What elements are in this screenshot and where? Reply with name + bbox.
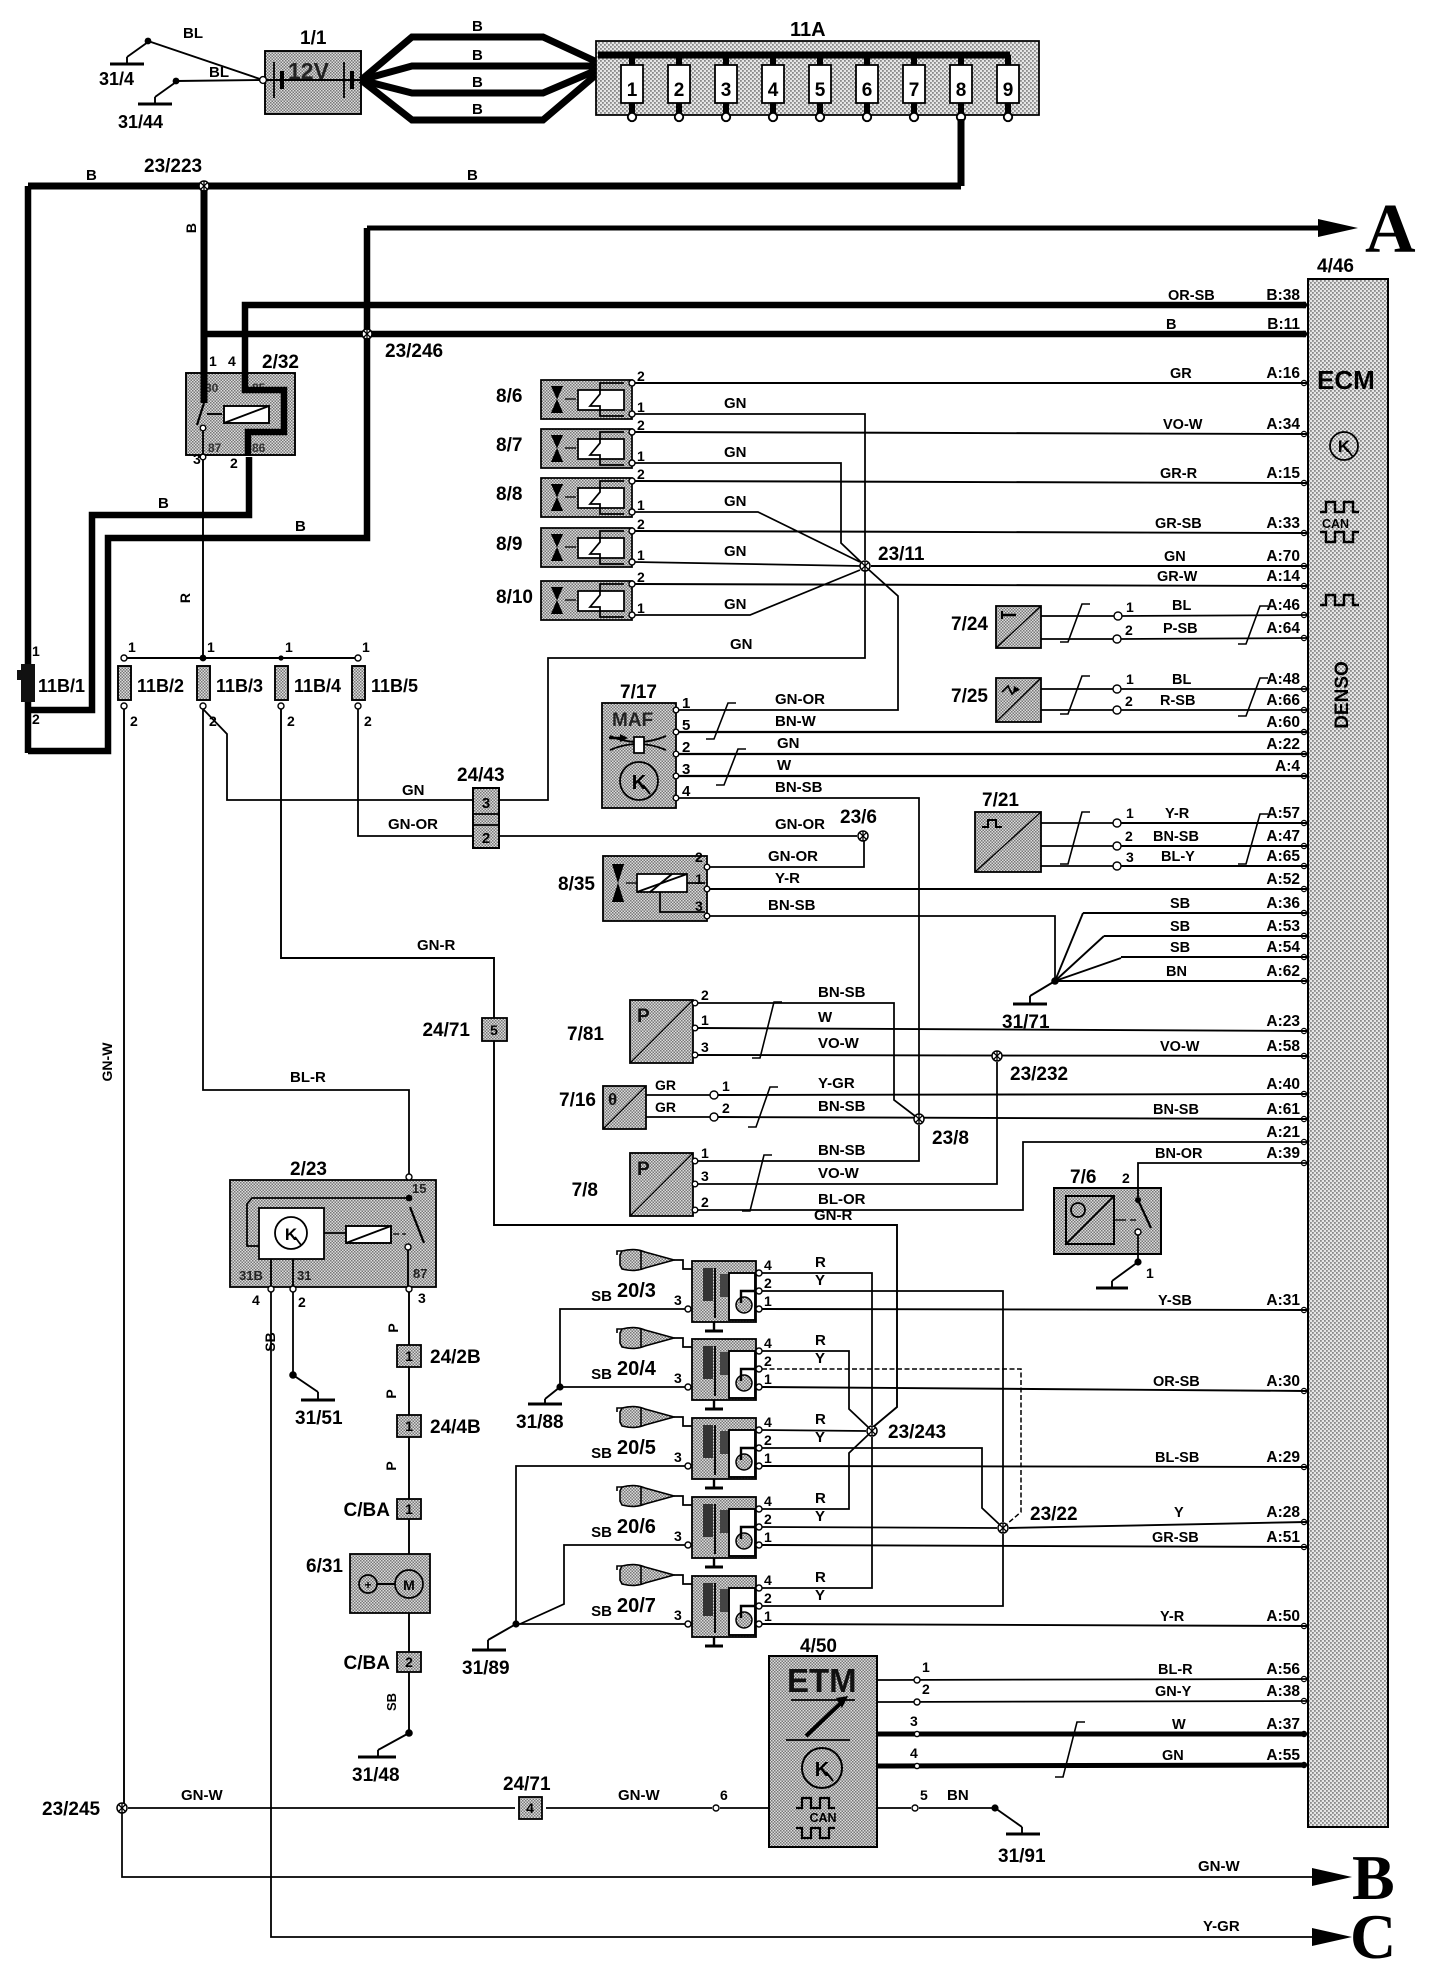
- svg-text:24/71: 24/71: [503, 1774, 551, 1795]
- svg-text:B: B: [1352, 1842, 1395, 1913]
- svg-text:GN-OR: GN-OR: [388, 816, 438, 833]
- wire Y from 20/6 pin 2 to node 23/22: [762, 1508, 997, 1528]
- node 23/22 label: [1030, 1504, 1078, 1525]
- svg-text:GR-W: GR-W: [1157, 569, 1198, 585]
- wire W from MAF pin 3 to ECM A:4: [679, 757, 1306, 776]
- svg-text:B: B: [1166, 317, 1176, 333]
- svg-text:W: W: [818, 1009, 833, 1026]
- svg-text:23/243: 23/243: [888, 1422, 946, 1443]
- svg-text:2: 2: [637, 466, 645, 482]
- wire Y from 20/7 pin 2 to node 23/22: [762, 1534, 1003, 1606]
- wire BN-SB from 7/8 pin 1 to node 23/8: [698, 1125, 919, 1161]
- wire VO-W from 8/7 pin 2 to ECM: [635, 432, 1306, 434]
- svg-text:1: 1: [128, 639, 136, 655]
- mass airflow sensor 7/17 MAF: [602, 682, 691, 808]
- svg-text:23/245: 23/245: [42, 1799, 101, 1820]
- wire GN from 8/7 pin 1 to node 23/11: [635, 444, 862, 563]
- svg-text:BL: BL: [1172, 672, 1191, 688]
- svg-text:1: 1: [701, 1145, 709, 1161]
- wire BN-SB from MAF pin 4 to node 23/8: [679, 779, 919, 1114]
- wire SB from C/BA 2 to ground 31/48: [352, 1693, 413, 1786]
- svg-text:P: P: [637, 1006, 650, 1027]
- main relay 2/23: [230, 1159, 436, 1310]
- svg-text:8/8: 8/8: [496, 484, 522, 505]
- svg-text:5: 5: [815, 80, 826, 101]
- svg-text:BN-SB: BN-SB: [818, 1142, 866, 1159]
- svg-text:1: 1: [1126, 599, 1134, 615]
- svg-text:1: 1: [764, 1293, 772, 1309]
- svg-text:6: 6: [720, 1787, 728, 1803]
- wire BN-OR from 7/6 pin 2 to ECM A:39: [1138, 1163, 1306, 1197]
- node 23/232 junction: [992, 1051, 1002, 1061]
- node 23/223 junction: [199, 181, 209, 191]
- svg-text:GN-OR: GN-OR: [775, 816, 825, 833]
- svg-text:1: 1: [637, 448, 645, 464]
- svg-text:A:54: A:54: [1266, 939, 1300, 956]
- svg-text:A:36: A:36: [1266, 895, 1300, 912]
- wire BL-SB from 20/5 pin 1 to ECM A:29: [762, 1466, 1306, 1467]
- fuse 11B/2: [118, 639, 184, 729]
- svg-text:4: 4: [526, 1800, 534, 1816]
- wire Y-GR from 7/16 pin 1 to ECM A:40: [718, 1075, 1306, 1095]
- svg-text:31B: 31B: [239, 1268, 263, 1283]
- shield symbol at ETM pins 3 and 4: [1055, 1722, 1085, 1777]
- svg-text:2/23: 2/23: [290, 1159, 327, 1180]
- ignition coil 8/8: [496, 466, 645, 517]
- svg-text:31/44: 31/44: [118, 112, 163, 132]
- svg-text:B: B: [472, 101, 483, 118]
- svg-text:20/6: 20/6: [617, 1516, 656, 1538]
- fuse 11B/3: [197, 639, 263, 729]
- svg-text:A:29: A:29: [1266, 1449, 1300, 1466]
- svg-text:Y: Y: [815, 1429, 825, 1446]
- svg-text:BN-SB: BN-SB: [818, 1098, 866, 1115]
- svg-text:4/46: 4/46: [1317, 256, 1354, 277]
- wire GN-OR from 24/43 pin 2 to node 23/6: [499, 816, 857, 836]
- svg-text:P: P: [637, 1159, 650, 1180]
- svg-text:P-SB: P-SB: [1163, 621, 1198, 637]
- svg-text:2: 2: [701, 987, 709, 1003]
- wire B from 23/246 down to left loop: [28, 334, 367, 751]
- svg-text:GR: GR: [655, 1077, 676, 1093]
- svg-text:1: 1: [405, 1348, 413, 1364]
- svg-text:P: P: [383, 1389, 399, 1398]
- crankshaft position sensor 7/25: [951, 671, 1134, 722]
- svg-text:A:28: A:28: [1266, 1504, 1300, 1521]
- svg-text:20/5: 20/5: [617, 1437, 656, 1459]
- wire VO-W from 7/8 pin 3 to node 23/232: [698, 1062, 997, 1184]
- svg-text:BN-SB: BN-SB: [768, 897, 816, 914]
- svg-text:11A: 11A: [790, 19, 826, 41]
- fuse 11B/4: [275, 639, 341, 729]
- svg-text:15: 15: [412, 1181, 426, 1196]
- wire GN-OR from 11B/5 to connector 24/43 pin 2: [358, 709, 473, 836]
- arrow C: [1312, 1901, 1396, 1972]
- wire GN-OR from node 23/11 to MAF pin 1: [678, 569, 898, 710]
- connector C/BA 1: [344, 1499, 421, 1521]
- svg-text:2: 2: [637, 516, 645, 532]
- svg-text:2: 2: [1122, 1170, 1130, 1186]
- svg-text:1: 1: [32, 643, 40, 659]
- svg-text:Y: Y: [815, 1587, 825, 1604]
- svg-text:A:64: A:64: [1266, 620, 1300, 637]
- wire GN-W from node 23/245 to ETM pin 6: [128, 1787, 769, 1811]
- svg-text:1: 1: [1146, 1265, 1154, 1281]
- wire BN-SB from 7/21 pin 2 to ECM A:47: [1121, 845, 1306, 847]
- svg-text:B: B: [295, 518, 306, 535]
- wire GN from 8/6 pin 1 to node 23/11: [635, 395, 865, 560]
- svg-text:1: 1: [764, 1450, 772, 1466]
- svg-text:11B/2: 11B/2: [137, 676, 184, 696]
- svg-text:A:14: A:14: [1266, 568, 1300, 585]
- svg-text:7/81: 7/81: [567, 1024, 604, 1045]
- wire GN from 24/43 to node 23/11: [499, 570, 865, 800]
- svg-text:B: B: [472, 74, 483, 91]
- svg-text:R: R: [815, 1411, 826, 1428]
- svg-text:3: 3: [701, 1168, 709, 1184]
- svg-text:DENSO: DENSO: [1332, 661, 1353, 729]
- svg-text:BN-SB: BN-SB: [775, 779, 823, 796]
- svg-text:Y: Y: [815, 1350, 825, 1367]
- svg-text:+: +: [364, 1578, 371, 1592]
- svg-text:A:60: A:60: [1266, 714, 1300, 731]
- svg-text:Y-R: Y-R: [1165, 806, 1190, 822]
- node 23/245 junction: [117, 1803, 127, 1813]
- shield symbols at 7/21: [1060, 812, 1268, 864]
- svg-text:C/BA: C/BA: [344, 1500, 391, 1521]
- ignition coil 8/10: [496, 569, 645, 620]
- svg-text:2: 2: [695, 849, 703, 865]
- svg-text:4: 4: [764, 1257, 772, 1273]
- svg-text:2: 2: [1125, 828, 1133, 844]
- svg-text:GN: GN: [724, 596, 747, 613]
- svg-text:GN: GN: [724, 493, 747, 510]
- wire R-SB from 7/25 pin 2 to ECM A:66: [1121, 709, 1306, 711]
- svg-text:A:66: A:66: [1266, 692, 1300, 709]
- svg-text:B: B: [472, 47, 483, 64]
- wire BL-R from 11B/3 to relay 2/23 pin 1: [203, 709, 409, 1174]
- relay 2/32: [186, 352, 299, 471]
- svg-text:2: 2: [764, 1353, 772, 1369]
- wire Y from 20/5 pin 2 to node 23/22: [762, 1429, 999, 1524]
- svg-text:1: 1: [285, 639, 293, 655]
- svg-text:1/1: 1/1: [300, 28, 327, 49]
- svg-text:R: R: [815, 1490, 826, 1507]
- svg-text:1: 1: [405, 1501, 413, 1517]
- svg-text:24/71: 24/71: [422, 1020, 470, 1041]
- svg-text:B: B: [467, 167, 478, 184]
- svg-text:2: 2: [637, 417, 645, 433]
- wire GN from MAF pin 2 to ECM A:22: [679, 735, 1306, 754]
- svg-text:GN-W: GN-W: [618, 1787, 660, 1804]
- svg-text:P: P: [383, 1461, 399, 1470]
- svg-text:23/8: 23/8: [932, 1128, 969, 1149]
- wire main B bus: [28, 167, 961, 186]
- temperature sensor 7/16: [559, 1077, 730, 1129]
- svg-text:31/51: 31/51: [295, 1408, 343, 1429]
- svg-text:GN: GN: [1162, 1748, 1184, 1764]
- svg-text:2: 2: [130, 713, 138, 729]
- wire Y-GR from 2/23 pin 4 to connector C: [271, 1292, 1312, 1937]
- wire P from 2/23 pin 3 through connectors: [383, 1292, 409, 1733]
- svg-text:1: 1: [209, 353, 217, 369]
- svg-text:B: B: [183, 223, 199, 233]
- svg-text:A:23: A:23: [1266, 1013, 1300, 1030]
- svg-text:2: 2: [764, 1432, 772, 1448]
- svg-text:A:39: A:39: [1266, 1145, 1300, 1162]
- wire GR-SB from 20/6 pin 1 to ECM A:51: [762, 1545, 1306, 1547]
- svg-text:VO-W: VO-W: [1160, 1039, 1200, 1055]
- wire SB from 20/5 pin 3 to ground 31/89: [516, 1445, 685, 1623]
- svg-text:GN-OR: GN-OR: [775, 691, 825, 708]
- svg-text:20/4: 20/4: [617, 1358, 657, 1380]
- svg-text:R: R: [815, 1332, 826, 1349]
- wire GR-SB from 8/9 pin 2 to ECM: [635, 531, 1306, 533]
- svg-text:GN-Y: GN-Y: [1155, 1684, 1192, 1700]
- solenoid valve 8/35: [558, 849, 710, 921]
- svg-text:A:65: A:65: [1266, 848, 1300, 865]
- svg-text:2: 2: [637, 368, 645, 384]
- svg-text:3: 3: [701, 1039, 709, 1055]
- wire B from 23/223 to relay 2/32 pin 1: [183, 186, 204, 375]
- svg-text:1: 1: [1126, 671, 1134, 687]
- svg-text:θ: θ: [608, 1090, 617, 1109]
- svg-text:1: 1: [637, 399, 645, 415]
- node 23/243 label: [888, 1422, 946, 1443]
- svg-text:2: 2: [922, 1681, 930, 1697]
- svg-text:GN: GN: [724, 444, 747, 461]
- wire R from 2/32 pin 3 to fuse bus: [177, 459, 203, 658]
- svg-text:3: 3: [674, 1449, 682, 1465]
- node 23/245 label: [42, 1799, 101, 1820]
- wire Y-R from 7/21 pin 1 to ECM A:57: [1121, 822, 1306, 824]
- node 23/11 junction: [860, 561, 870, 571]
- svg-text:24/2B: 24/2B: [430, 1347, 481, 1368]
- node 23/8 junction: [914, 1114, 924, 1124]
- svg-text:BN-SB: BN-SB: [1153, 1102, 1199, 1118]
- svg-text:SB: SB: [591, 1445, 612, 1462]
- svg-text:1: 1: [405, 1418, 413, 1434]
- wire GR-R from 8/8 pin 2 to ECM: [635, 481, 1306, 483]
- svg-text:2: 2: [674, 80, 685, 101]
- svg-text:2: 2: [701, 1194, 709, 1210]
- wire GR-W from 8/10 pin 2 to ECM: [635, 584, 1306, 586]
- svg-text:23/6: 23/6: [840, 807, 877, 828]
- svg-text:20/7: 20/7: [617, 1595, 656, 1617]
- oxygen sensor 20/3: [617, 1250, 772, 1331]
- svg-text:K: K: [285, 1225, 298, 1244]
- wire GN-OR from 8/35 pin 2 to node 23/6: [710, 836, 864, 867]
- svg-text:A:56: A:56: [1266, 1661, 1300, 1678]
- node 23/11 label: [878, 544, 925, 565]
- svg-text:GN-R: GN-R: [417, 937, 455, 954]
- svg-text:VO-W: VO-W: [818, 1165, 860, 1182]
- connector 24/4B: [397, 1415, 481, 1438]
- svg-text:4: 4: [252, 1292, 260, 1308]
- electronic throttle module 4/50 ETM: [769, 1636, 877, 1847]
- svg-text:23/223: 23/223: [144, 156, 202, 177]
- camshaft position sensor 7/24: [951, 599, 1134, 648]
- svg-text:A:38: A:38: [1266, 1683, 1300, 1700]
- svg-text:GN: GN: [402, 782, 425, 799]
- svg-text:R-SB: R-SB: [1160, 693, 1195, 709]
- fuse 11B/1: [17, 643, 85, 727]
- svg-text:A:62: A:62: [1266, 963, 1300, 980]
- wire VO-W from 7/81 pin 3 to ECM A:58: [698, 1035, 1306, 1056]
- svg-text:2: 2: [482, 830, 490, 847]
- svg-text:7/24: 7/24: [951, 614, 988, 635]
- svg-text:W: W: [777, 757, 792, 774]
- connector 24/71 pin 4: [503, 1774, 551, 1819]
- svg-text:1: 1: [722, 1078, 730, 1094]
- svg-text:1: 1: [701, 1012, 709, 1028]
- svg-text:3: 3: [674, 1528, 682, 1544]
- svg-text:4: 4: [228, 353, 236, 369]
- wire bundle B from battery to fusebox 11A: [361, 18, 597, 120]
- fuse bus 11B: [121, 655, 361, 662]
- knock sensor 7/21: [975, 790, 1134, 872]
- svg-text:SB: SB: [1170, 896, 1190, 912]
- node 23/246 label: [385, 341, 443, 362]
- wire R from 20/7 pin 4 to node 23/243: [762, 1437, 872, 1588]
- svg-text:BN-SB: BN-SB: [818, 984, 866, 1001]
- fusebox 11A: [596, 19, 1039, 121]
- svg-text:24/43: 24/43: [457, 765, 505, 786]
- pressure sensor 7/8: [572, 1145, 709, 1216]
- node 23/6 label: [840, 807, 877, 828]
- svg-text:CAN: CAN: [1322, 517, 1349, 531]
- wire BL-OR from 7/8 pin 2 to ECM A:21: [698, 1142, 1306, 1210]
- svg-text:2: 2: [230, 455, 238, 471]
- svg-text:K: K: [1338, 437, 1351, 456]
- wire B left bus through fuse 11B/1: [25, 186, 32, 753]
- svg-text:3: 3: [674, 1292, 682, 1308]
- wire BL from 7/25 pin 1 to ECM A:48: [1121, 688, 1306, 690]
- svg-text:A:30: A:30: [1266, 1373, 1300, 1390]
- svg-text:9: 9: [1003, 80, 1014, 101]
- svg-text:GN: GN: [724, 543, 747, 560]
- svg-text:Y: Y: [815, 1272, 825, 1289]
- svg-text:BL: BL: [209, 64, 229, 81]
- svg-text:GR-SB: GR-SB: [1152, 1530, 1199, 1546]
- svg-text:ECM: ECM: [1317, 365, 1375, 395]
- svg-text:1: 1: [362, 639, 370, 655]
- svg-text:20/3: 20/3: [617, 1280, 656, 1302]
- svg-text:87: 87: [208, 441, 222, 455]
- svg-text:BL: BL: [1172, 598, 1191, 614]
- oxygen sensor 20/5: [617, 1407, 772, 1488]
- svg-text:4/50: 4/50: [800, 1636, 837, 1657]
- wire BL-Y from 7/21 pin 3 to ECM A:65: [1121, 865, 1306, 867]
- svg-text:R: R: [177, 593, 193, 603]
- node 23/243 junction: [867, 1426, 877, 1436]
- svg-text:5: 5: [490, 1022, 498, 1038]
- svg-text:2: 2: [364, 713, 372, 729]
- svg-text:2: 2: [32, 711, 40, 727]
- svg-text:BN: BN: [1166, 964, 1187, 980]
- svg-text:23/246: 23/246: [385, 341, 443, 362]
- svg-text:1: 1: [922, 1659, 930, 1675]
- svg-text:A:58: A:58: [1266, 1038, 1300, 1055]
- svg-text:A:37: A:37: [1266, 1716, 1300, 1733]
- svg-text:3: 3: [418, 1290, 426, 1306]
- wire GN-R from 11B/4 to node 23/243: [281, 709, 897, 1428]
- svg-text:CAN: CAN: [809, 1811, 836, 1825]
- svg-text:3: 3: [193, 451, 201, 467]
- svg-text:GN-OR: GN-OR: [768, 848, 818, 865]
- svg-text:Y-R: Y-R: [775, 870, 800, 887]
- wire Y-R from 20/7 pin 1 to ECM A:50: [762, 1624, 1306, 1626]
- svg-text:4: 4: [764, 1493, 772, 1509]
- shield symbol at 7/16: [748, 1087, 778, 1127]
- ignition coil 8/7: [496, 417, 645, 468]
- wire R from 20/3 pin 4 to node 23/243: [762, 1254, 872, 1425]
- svg-text:A:50: A:50: [1266, 1608, 1300, 1625]
- svg-text:3: 3: [910, 1713, 918, 1729]
- svg-text:4: 4: [764, 1572, 772, 1588]
- battery 1/1 12V: [260, 28, 361, 114]
- svg-text:A:34: A:34: [1266, 416, 1300, 433]
- wire SB from 20/4 pin 3 to ground 31/88: [516, 1366, 685, 1433]
- svg-text:3: 3: [1126, 849, 1134, 865]
- svg-text:SB: SB: [591, 1366, 612, 1383]
- svg-text:A:40: A:40: [1266, 1076, 1300, 1093]
- wire SB from 2/23 pin 2 to ground 31/51: [262, 1292, 343, 1429]
- wire OR-SB from 20/4 pin 1 to ECM A:30: [762, 1387, 1306, 1391]
- pump 6/31: [306, 1554, 430, 1613]
- svg-text:2/32: 2/32: [262, 352, 299, 373]
- connector 24/43: [457, 765, 505, 848]
- svg-text:A:15: A:15: [1266, 465, 1300, 482]
- svg-text:6: 6: [862, 80, 873, 101]
- svg-text:Y-GR: Y-GR: [818, 1075, 855, 1092]
- svg-text:B:11: B:11: [1267, 316, 1300, 333]
- svg-text:R: R: [815, 1254, 826, 1271]
- svg-text:31/48: 31/48: [352, 1765, 400, 1786]
- wire SB from 20/7 pin 3 to ground 31/89: [462, 1603, 685, 1679]
- svg-text:1: 1: [1126, 805, 1134, 821]
- svg-text:GR-SB: GR-SB: [1155, 516, 1202, 532]
- wire BN-SB from 8/35 pin 3 to ground 31/71: [710, 897, 1055, 978]
- svg-text:23/232: 23/232: [1010, 1064, 1068, 1085]
- wire B:11 bus to ECM: [202, 331, 1306, 338]
- wire BN from ETM pin 5 to ground 31/91: [877, 1787, 1046, 1867]
- svg-text:A: A: [1365, 191, 1416, 268]
- wire Y-R from 8/35 pin 1 to ECM A:52: [710, 870, 1306, 889]
- ECM control module 4/46: [1308, 256, 1388, 1827]
- svg-text:2: 2: [1125, 622, 1133, 638]
- svg-text:A:57: A:57: [1266, 805, 1300, 822]
- svg-text:8/9: 8/9: [496, 534, 522, 555]
- svg-text:11B/5: 11B/5: [371, 676, 418, 696]
- svg-text:GN: GN: [777, 735, 800, 752]
- svg-text:1: 1: [764, 1608, 772, 1624]
- svg-text:A:55: A:55: [1266, 1747, 1300, 1764]
- svg-text:2: 2: [298, 1294, 306, 1310]
- svg-text:C/BA: C/BA: [344, 1653, 391, 1674]
- svg-text:W: W: [1172, 1717, 1186, 1733]
- svg-text:1: 1: [695, 871, 703, 887]
- node 23/8 label: [932, 1128, 969, 1149]
- shield symbol at 7/8: [742, 1155, 772, 1211]
- ground 31/71 junction: [1002, 913, 1306, 1033]
- svg-text:ETM: ETM: [787, 1662, 857, 1699]
- svg-text:SB: SB: [1170, 940, 1190, 956]
- svg-text:BL-R: BL-R: [1158, 1662, 1193, 1678]
- svg-text:BN: BN: [947, 1787, 969, 1804]
- svg-text:A:46: A:46: [1266, 597, 1300, 614]
- svg-text:86: 86: [252, 441, 266, 455]
